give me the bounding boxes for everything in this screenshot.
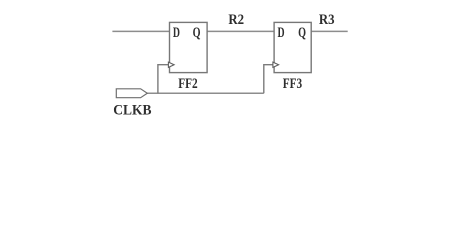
svg-text:R2: R2 [228,12,244,28]
svg-text:CLKB: CLKB [113,102,151,118]
wire: FF3 Q output (net R3) [311,30,348,32]
wire: CLKB bus [147,92,263,94]
svg-text:FF3: FF3 [283,76,302,92]
input port CLKB (pentagon flag) [116,89,147,98]
wire: clock branch to FF3 [264,65,273,94]
clock input wedge FF3 [273,62,279,67]
svg-text:R3: R3 [319,12,335,28]
wire: clock branch to FF2 [158,65,169,94]
svg-text:D: D [278,25,285,41]
D flip-flop FF2 (box) [170,22,208,72]
svg-text:Q: Q [298,25,306,41]
svg-text:D: D [173,25,180,41]
D flip-flop FF3 (box) [274,22,311,72]
svg-text:FF2: FF2 [178,76,198,92]
wire: FF2 Q to FF3 D (net R2) [207,30,274,32]
svg-text:Q: Q [193,25,201,41]
clock input wedge FF2 [168,62,174,67]
wire: input to FF2 D [112,30,169,32]
